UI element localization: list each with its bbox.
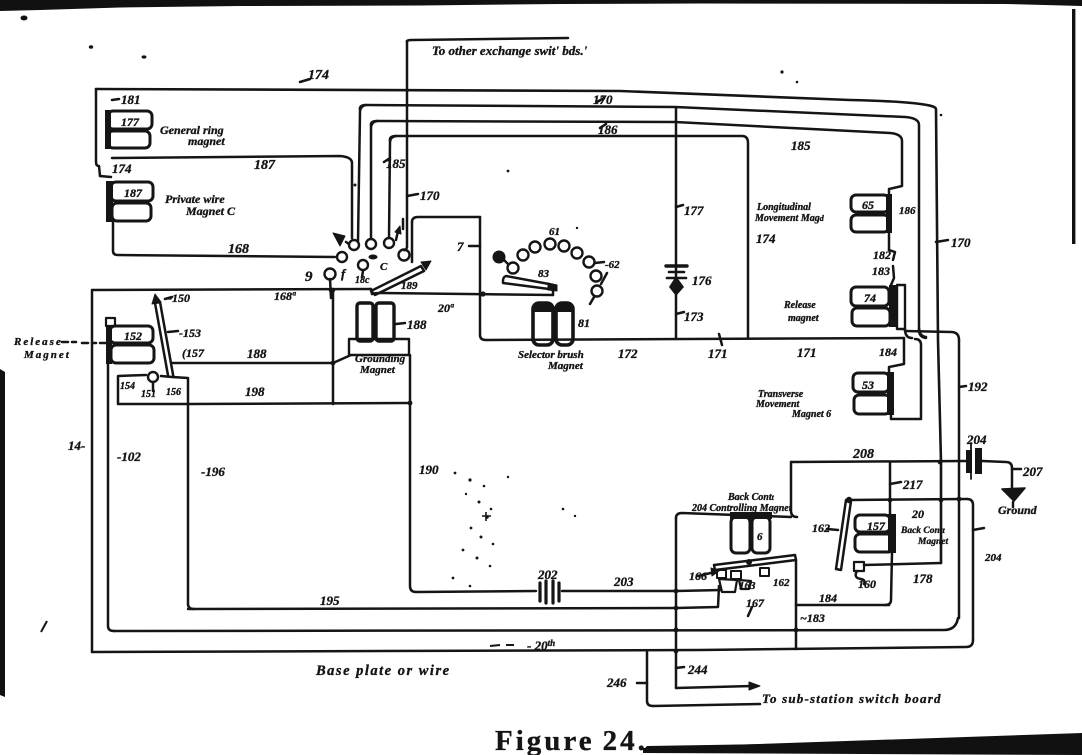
svg-text:171: 171: [708, 346, 728, 361]
coil 152 stub: [106, 318, 115, 326]
wire L3 bus: [371, 121, 902, 196]
wire bus 339: [486, 338, 904, 340]
wire armature pivot down: [371, 289, 372, 294]
contact circle b6: [572, 248, 583, 259]
svg-text:14-: 14-: [68, 438, 85, 453]
contact circle a6: [358, 260, 368, 270]
svg-text:magnet: magnet: [788, 313, 820, 324]
svg-text:Ground: Ground: [998, 503, 1038, 517]
svg-text:7: 7: [457, 239, 464, 254]
wire vertical D to other exchange: [406, 41, 409, 247]
svg-text:Base plate or wire: Base plate or wire: [315, 663, 451, 679]
coil 65 right bar: [886, 194, 892, 233]
svg-text:160: 160: [858, 577, 876, 591]
contact finger f2: [731, 571, 741, 579]
svg-text:208: 208: [852, 447, 874, 462]
wire 185 tick: [384, 158, 390, 162]
grounding magnet coil cell1: [357, 303, 373, 341]
coil 177 general ring cell2: [108, 131, 150, 148]
svg-text:53: 53: [862, 378, 874, 392]
svg-text:188: 188: [247, 346, 267, 361]
wire vertical B: [371, 121, 377, 239]
svg-text:185: 185: [791, 138, 811, 153]
contact circle b9: [592, 286, 603, 297]
contact circle b2: [518, 250, 529, 261]
transverse box top: [889, 338, 904, 373]
svg-text:81: 81: [578, 316, 590, 330]
coil 152 cell2: [111, 345, 154, 363]
svg-text:172: 172: [618, 346, 638, 361]
coil 157 right bar: [888, 514, 896, 553]
scan bar right top: [1072, 9, 1075, 244]
dashes 20th: [490, 645, 514, 646]
svg-text:151: 151: [141, 389, 156, 400]
svg-text:Figure24.: Figure24.: [495, 725, 648, 755]
wire 203 capacitor right lead: [562, 590, 676, 593]
wire box189 right vertical: [480, 217, 486, 340]
junction 796-630: [794, 628, 799, 633]
wiper bar tip: [548, 283, 557, 291]
ground stem: [1012, 502, 1015, 507]
svg-text:207: 207: [1022, 464, 1043, 479]
wire vertical 676: [675, 518, 678, 688]
wire 187 horizontal: [112, 156, 352, 238]
wiper bar 83: [503, 276, 549, 289]
scan bar left: [0, 369, 5, 697]
svg-text:182: 182: [873, 248, 891, 262]
svg-text:Magnet: Magnet: [359, 364, 396, 376]
svg-text:170: 170: [593, 92, 613, 107]
release coil 152: [106, 318, 154, 364]
wire 181 stub: [112, 99, 119, 100]
scan slash left bottom: [41, 621, 47, 632]
svg-text:Magnet: Magnet: [547, 360, 584, 372]
wire 170 tick L2: [597, 98, 604, 102]
wire 246 horizontal: [653, 704, 760, 706]
svg-text:188: 188: [407, 317, 427, 332]
wire vertical 188 inner-left: [108, 364, 114, 631]
wire 917 join bus: [919, 328, 926, 337]
contact circle b7: [584, 257, 595, 268]
wire vertical 333: [332, 290, 335, 404]
svg-text:To sub-station switch board: To sub-station switch board: [762, 691, 942, 706]
svg-text:186: 186: [899, 205, 916, 217]
svg-text:204 Controlling Magnet: 204 Controlling Magnet: [691, 503, 793, 514]
svg-text:217: 217: [902, 477, 923, 492]
contact circle bank left: [325, 238, 410, 280]
wire 174 tick top: [300, 79, 310, 82]
svg-text:176: 176: [692, 273, 712, 288]
wire 186 tick L3: [600, 124, 606, 128]
svg-text:61: 61: [549, 226, 560, 238]
wire 605 horizontal: [796, 604, 889, 607]
coil 187 private cell2: [112, 203, 151, 221]
junction 959-499: [957, 497, 962, 502]
svg-text:-153: -153: [179, 326, 201, 340]
wire squiggle 160: [856, 571, 865, 584]
wire box189 stub: [402, 219, 405, 229]
svg-text:~183: ~183: [800, 611, 825, 625]
wire 170 tick right: [936, 240, 948, 242]
svg-text:154: 154: [120, 381, 135, 392]
svg-text:Magnet: Magnet: [23, 349, 71, 361]
junction 890-500: [888, 498, 893, 503]
junction 941-500: [939, 498, 944, 503]
wire coil74 top lead: [891, 266, 894, 285]
scan band top: [0, 0, 1082, 11]
svg-text:Back Contt: Back Contt: [900, 526, 945, 536]
coil 177 general ring cell1: [108, 111, 152, 129]
junction 676-608: [674, 606, 679, 611]
contact cup c2: [739, 580, 751, 589]
svg-text:156: 156: [166, 387, 181, 398]
wire 192 tick: [959, 386, 966, 387]
battery 176 blob: [669, 276, 684, 296]
junction 676-630: [674, 628, 679, 633]
coil 53 cell2: [854, 395, 890, 414]
svg-text:184: 184: [879, 345, 897, 359]
coil 187 left bar: [106, 181, 113, 222]
contact circle a4: [399, 250, 410, 261]
wire 191 to contact cup: [676, 590, 722, 591]
wire 217 tick: [890, 482, 901, 484]
wire vertical 196: [188, 404, 194, 609]
wire coil53 bottom: [891, 339, 921, 419]
arrowhead 166: [711, 568, 719, 576]
svg-text:203: 203: [613, 574, 634, 589]
wire L2 bus: [360, 105, 926, 338]
wire 168 arrow tail: [346, 242, 352, 246]
contact circle b1: [508, 263, 519, 274]
svg-text:187: 187: [254, 158, 276, 173]
coil 152 cell1: [110, 326, 153, 343]
coil 187 private cell1: [111, 182, 153, 201]
contact circle a7: [325, 269, 336, 280]
svg-text:Movement Magd: Movement Magd: [754, 213, 825, 224]
svg-text:magnet: magnet: [188, 134, 225, 148]
contact circle b8: [591, 271, 602, 282]
wire 204b tick: [973, 528, 984, 530]
wire vertical 791: [791, 462, 797, 517]
svg-text:187: 187: [124, 186, 143, 200]
svg-text:74: 74: [864, 291, 876, 305]
svg-text:181: 181: [121, 92, 141, 107]
scan dot topleft: [21, 16, 28, 21]
wire left border middle box: [91, 290, 94, 652]
coil 157 cell1: [855, 515, 890, 532]
svg-text:168ª: 168ª: [274, 289, 296, 303]
wire 244 horizontal: [676, 686, 752, 688]
svg-text:162: 162: [773, 577, 790, 589]
svg-text:157: 157: [867, 519, 886, 533]
svg-text:170: 170: [951, 235, 971, 250]
selector coil dark cap2: [556, 303, 573, 312]
contact circle b3: [530, 242, 541, 253]
svg-text:244: 244: [687, 662, 708, 677]
svg-text:Magnet C: Magnet C: [185, 204, 236, 218]
svg-text:20ª: 20ª: [437, 301, 454, 315]
svg-text:170: 170: [420, 188, 440, 203]
wire stub circle a6: [362, 271, 363, 277]
wire coil2 down-left: [113, 222, 335, 257]
svg-text:173: 173: [684, 309, 704, 324]
svg-text:83: 83: [538, 268, 550, 280]
wire 195: [188, 608, 676, 609]
wire 170 tick D: [407, 194, 418, 196]
wire bottom contact bus 293: [372, 293, 553, 295]
wire wiper to bus: [552, 291, 555, 295]
wire box189 left vertical: [411, 222, 414, 262]
wire bottom bus 631: [114, 618, 958, 631]
wire D curve to circle: [404, 247, 407, 250]
wire L4 bus: [390, 136, 748, 338]
svg-text:162: 162: [812, 521, 830, 535]
plus mark dust: [482, 512, 491, 521]
svg-text:189: 189: [401, 280, 418, 292]
svg-text:178: 178: [913, 571, 933, 586]
wire box top 517: [676, 513, 791, 518]
pivot box 151: [118, 375, 188, 404]
wire 198: [188, 403, 409, 404]
wire step to private coil: [100, 176, 111, 177]
contact finger f3: [760, 568, 769, 576]
dust speckles: [354, 70, 943, 587]
svg-text:186: 186: [598, 122, 618, 137]
svg-text:190: 190: [419, 462, 439, 477]
scan wedge bottom right: [643, 733, 1082, 755]
junction 333: [331, 361, 336, 366]
arrowhead 168: [333, 233, 345, 246]
wire 153 tick: [168, 331, 178, 332]
junction 333-290: [331, 288, 336, 293]
coil 161 cell2: [752, 517, 770, 553]
wire 171 tick: [719, 334, 722, 345]
selector arc blob: [493, 251, 506, 264]
ink blob near cluster: [369, 255, 378, 260]
wire vertical 959: [958, 340, 961, 618]
svg-text:185: 185: [386, 156, 406, 171]
coil 74 cell2: [852, 308, 890, 326]
wire stub circle a7: [330, 279, 331, 298]
junction 676-591: [674, 589, 679, 594]
junction armature 162 top: [846, 497, 852, 503]
contact circle a5: [337, 252, 347, 262]
armature 150: [155, 302, 174, 381]
wire vertical 190: [410, 355, 416, 592]
selector brush coil cell2: [556, 303, 573, 345]
junction 676-651: [674, 649, 679, 654]
wire 7 tick: [469, 245, 480, 248]
dashes release text tie: [62, 342, 107, 343]
coil 74 right bar: [889, 285, 896, 327]
armature 165 bar: [714, 555, 796, 570]
svg-text:174: 174: [308, 68, 329, 83]
coil 152 left bar: [106, 325, 112, 364]
svg-text:168: 168: [228, 242, 249, 257]
coil 74 release: [851, 285, 905, 329]
coil 65 cell1: [851, 195, 889, 212]
wire grounding 188 from armature: [171, 362, 333, 365]
svg-text:Longitudinal: Longitudinal: [756, 202, 811, 213]
wire coil74 to bus: [905, 329, 912, 338]
svg-text:177: 177: [684, 203, 704, 218]
contact finger f1: [717, 570, 726, 578]
svg-text:167: 167: [746, 596, 765, 610]
armature 162 bar: [836, 500, 851, 570]
wire left border top box: [96, 89, 100, 176]
wire 177 tick: [676, 205, 683, 207]
coil 74 pole piece: [897, 285, 905, 329]
wire 188 tick grounding: [396, 323, 405, 324]
wire top edge middle box: [92, 289, 371, 290]
svg-text:204: 204: [984, 552, 1002, 564]
svg-text:-62: -62: [605, 259, 620, 271]
grounding magnet coil cell2: [376, 303, 394, 341]
svg-text:174: 174: [756, 231, 776, 246]
wire vertical 890 upper: [889, 462, 892, 514]
contact circle a1: [349, 240, 359, 250]
svg-text:202: 202: [537, 567, 558, 582]
wire vertical A: [358, 105, 366, 241]
svg-text:20: 20: [911, 507, 924, 521]
coil 53 cell1: [853, 373, 889, 392]
svg-text:198: 198: [245, 384, 265, 399]
coil 65 longitudinal: [851, 194, 892, 233]
svg-text:-102: -102: [117, 449, 141, 464]
svg-text:166: 166: [689, 569, 707, 583]
wire 959 top corner: [905, 331, 959, 340]
wire square to 941: [864, 563, 941, 565]
grounding magnet yoke: [349, 339, 409, 355]
arrowhead 150: [152, 294, 161, 304]
wire 173 tick: [676, 312, 684, 314]
svg-text:Magnet 6: Magnet 6: [791, 409, 831, 420]
svg-text:174: 174: [112, 161, 132, 176]
svg-text:Release: Release: [783, 300, 816, 311]
wire vertical C: [389, 136, 396, 238]
selector brush coil cell1: [533, 303, 553, 345]
contact circle b5: [559, 241, 570, 252]
wire 150 tick: [165, 297, 172, 299]
wire coil65 bottom lead: [888, 233, 891, 250]
coil 161 top bar: [730, 512, 772, 519]
wire 202 capacitor left lead: [416, 591, 536, 592]
contact circle 151: [148, 372, 158, 382]
contact square 160: [854, 562, 864, 571]
wire 166 arrow: [698, 572, 715, 576]
scan dot 3: [142, 55, 147, 58]
wire slash under b8: [601, 273, 607, 284]
selector coil dark cap1: [533, 303, 553, 312]
svg-text:177: 177: [121, 115, 140, 129]
junction 483: [480, 291, 485, 296]
wire 246 tick: [637, 682, 647, 685]
arrowhead 4: [395, 226, 401, 234]
wire overline to other exchange: [407, 38, 568, 42]
svg-text:Back Contt: Back Contt: [727, 492, 775, 503]
svg-text:-196: -196: [201, 464, 225, 479]
wire 244 tick: [676, 667, 684, 668]
wire bottom bus 652: [92, 640, 973, 652]
wire vertical 677 battery: [675, 108, 678, 338]
wire arrow 4 near C: [396, 231, 398, 240]
scan dot 2: [89, 45, 93, 49]
ground symbol: [1002, 488, 1025, 501]
arrowhead armature 189: [421, 261, 431, 270]
svg-text:195: 195: [320, 593, 340, 608]
svg-text:-150: -150: [168, 291, 190, 305]
contact circle a2: [366, 239, 376, 249]
wire 333 to yoke: [333, 355, 351, 363]
wire 151 stem: [152, 383, 155, 391]
coil 53 right bar: [887, 372, 894, 415]
wire armature2 tip down: [795, 560, 798, 649]
svg-text:(157: (157: [182, 346, 205, 360]
scan line under caption: [643, 742, 900, 750]
coil 74 cell1: [851, 287, 889, 306]
arrowhead sub-station: [749, 682, 760, 690]
wire box189 top: [412, 217, 480, 222]
wire 195 extension: [676, 586, 719, 608]
coil 177 left bar: [105, 110, 111, 149]
wire 207 tick: [1012, 468, 1021, 471]
svg-text:192: 192: [968, 379, 988, 394]
svg-text:184: 184: [819, 591, 837, 605]
junction a7 stem: [329, 288, 334, 293]
wire 167 slash: [748, 607, 752, 616]
wire L1 top bus: [96, 89, 941, 563]
svg-text:163: 163: [739, 580, 756, 592]
contact circle a3: [384, 238, 394, 248]
wire blob tie: [504, 260, 509, 265]
svg-text:65: 65: [862, 198, 874, 212]
svg-text:18c: 18c: [355, 275, 370, 286]
junction 941-462: [938, 460, 943, 465]
svg-text:C: C: [380, 261, 388, 273]
svg-text:183: 183: [872, 264, 890, 278]
wire coil157 down: [885, 553, 892, 605]
wire 204 to ground corner: [982, 461, 1012, 488]
svg-text:Release: Release: [13, 336, 63, 348]
wire right border 973: [967, 499, 973, 640]
svg-text:f: f: [341, 266, 347, 281]
svg-text:246: 246: [606, 675, 627, 690]
svg-text:9: 9: [305, 269, 313, 285]
wire 182 tick: [889, 250, 895, 260]
capacitor 204: [966, 443, 982, 479]
junction armature core: [746, 559, 752, 565]
wire 62 tick: [595, 262, 604, 263]
coil 65 cell2: [851, 215, 889, 232]
svg-text:204: 204: [966, 432, 987, 447]
junction 409: [408, 401, 413, 406]
wire 499 horizontal: [849, 499, 967, 500]
contact circle b4: [545, 239, 556, 250]
svg-text:Magnet: Magnet: [917, 537, 948, 547]
coil 161 cell1: [731, 517, 750, 553]
svg-text:6: 6: [757, 531, 763, 543]
wire 208 horizontal 462: [791, 461, 966, 462]
svg-text:171: 171: [797, 345, 817, 360]
wire stub b9: [590, 297, 594, 304]
wire 162 tick: [827, 529, 838, 530]
capacitor 202: [540, 581, 559, 603]
wire 246 vertical: [647, 652, 653, 706]
armature 189: [371, 266, 424, 295]
coil 53 transverse: [853, 372, 894, 415]
svg-text:To other exchange swit' bds.': To other exchange swit' bds.': [432, 43, 588, 58]
contact cup c1: [719, 579, 737, 592]
